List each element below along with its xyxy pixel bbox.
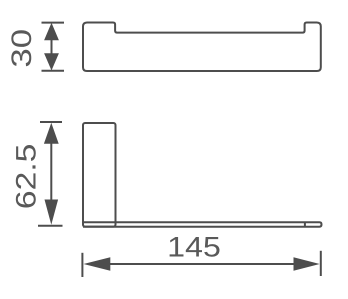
top view: bar profile outline [83, 23, 321, 72]
dimension label 145 [170, 237, 220, 257]
dimension 62.5 arrow down [45, 200, 59, 225]
side view: end cap divider [304, 222, 306, 226]
dimension 145 extension tick left [81, 253, 83, 277]
dimension 145 extension tick right [320, 251, 322, 276]
dimension 62.5 arrow up [44, 123, 59, 144]
dimension label 62.5 [16, 145, 36, 207]
dimension 62.5 extension tick top [40, 121, 62, 123]
dimension 30 arrow up [44, 23, 59, 41]
side view: horizontal bar base strip [83, 222, 322, 226]
dimension 30 extension tick top [42, 22, 65, 24]
dimension 145 line [110, 263, 294, 265]
dimension 30 arrow down [44, 53, 59, 70]
dimension 145 arrow right [294, 257, 320, 270]
dimension label 30 [11, 30, 31, 66]
dimension 30 extension tick bottom [42, 70, 65, 72]
dimension 62.5 extension tick bottom [38, 225, 63, 227]
dimension 145 arrow left [84, 257, 111, 270]
side view: vertical plate [83, 123, 116, 227]
dimension 62.5 line [50, 142, 52, 201]
dimension 30 line [51, 40, 53, 54]
